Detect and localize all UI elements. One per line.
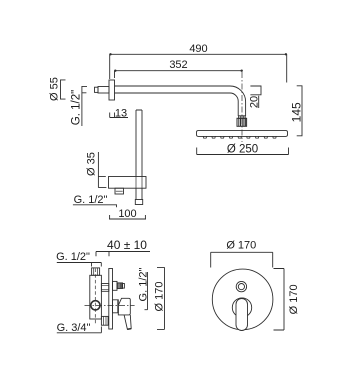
- svg-text:13: 13: [115, 107, 127, 119]
- svg-text:Ø 170: Ø 170: [154, 282, 166, 312]
- svg-text:145: 145: [290, 102, 304, 122]
- svg-text:Ø 55: Ø 55: [48, 77, 60, 101]
- svg-text:Ø 35: Ø 35: [86, 152, 98, 176]
- svg-text:490: 490: [189, 43, 207, 55]
- svg-text:20: 20: [249, 96, 261, 108]
- svg-text:Ø 170: Ø 170: [288, 284, 300, 314]
- svg-text:100: 100: [118, 208, 136, 220]
- svg-text:Ø 170: Ø 170: [226, 240, 256, 252]
- svg-text:Ø 250: Ø 250: [227, 144, 258, 156]
- svg-text:G. 1/2": G. 1/2": [137, 267, 149, 301]
- svg-text:G. 3/4": G. 3/4": [57, 322, 91, 334]
- svg-text:40 ± 10: 40 ± 10: [107, 238, 147, 252]
- svg-text:G. 1/2": G. 1/2": [71, 90, 83, 125]
- svg-text:352: 352: [169, 59, 187, 71]
- svg-text:G. 1/2": G. 1/2": [74, 194, 108, 206]
- svg-text:G. 1/2": G. 1/2": [56, 251, 90, 263]
